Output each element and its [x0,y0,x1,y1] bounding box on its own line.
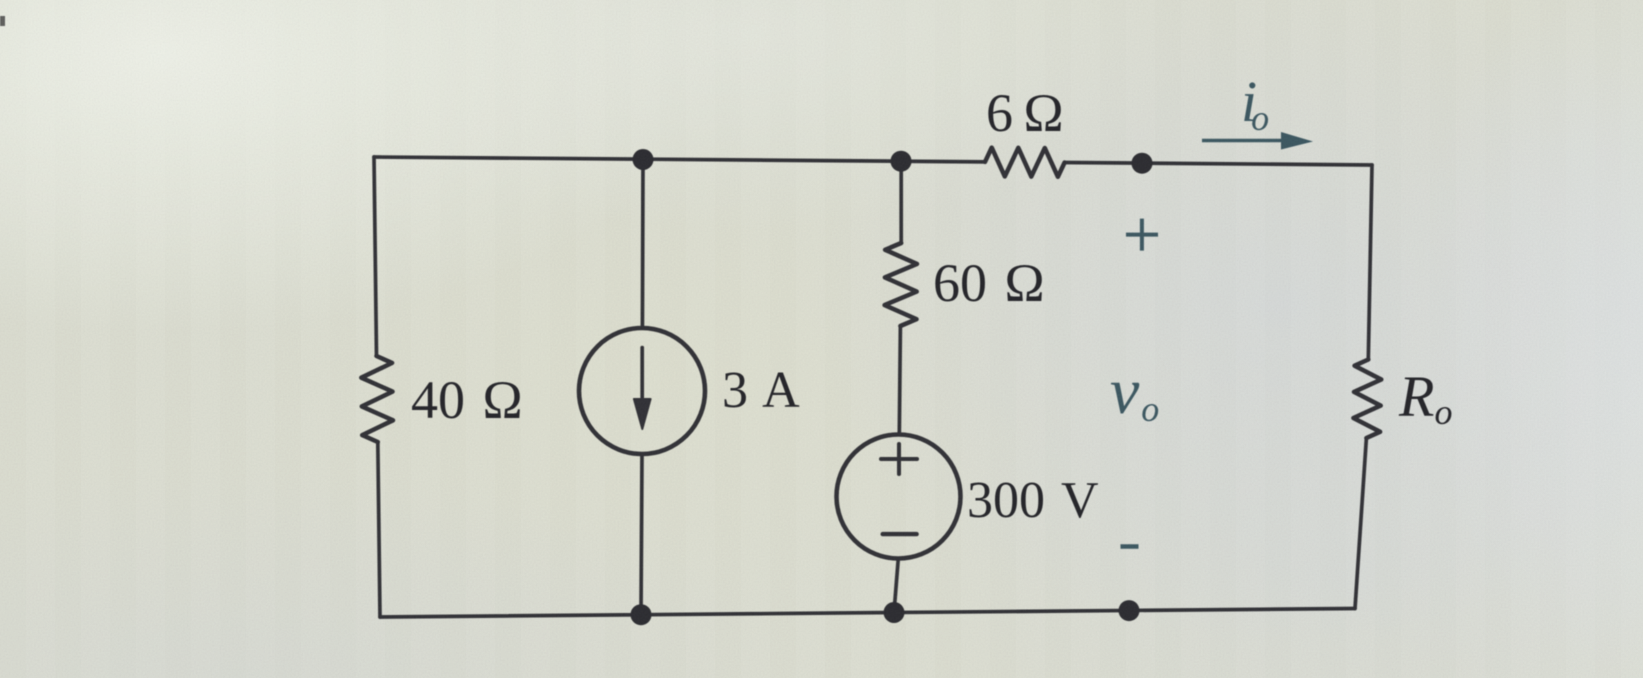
node bottom 2 [884,602,905,623]
wire right lower [1355,438,1366,609]
voltage source 300V circle [837,435,961,559]
current source arrow [640,348,644,400]
io arrow [1202,139,1285,143]
svg-text:60 Ω: 60 Ω [933,253,1045,313]
wire middle branch mid [899,326,900,435]
wire left upper [374,157,377,356]
svg-text:6 Ω: 6 Ω [986,83,1064,143]
node bottom 3 [1119,600,1140,621]
wire middle branch lower [894,559,898,613]
stray mark at left edge [0,16,5,26]
vo plus [1126,219,1158,251]
voltage source minus [883,532,917,536]
vo minus [1121,544,1139,548]
svg-text:io: io [1241,69,1269,138]
node top 1 [633,149,654,170]
node top 3 [1132,153,1153,174]
voltage source plus [881,444,917,474]
wire middle branch upper [899,161,903,243]
wire top right [1065,163,1372,166]
current source 3A circle [579,328,705,454]
resistor 60 Ohm [885,243,917,326]
resistor 40 Ohm [361,356,393,442]
wire bottom [380,609,1355,618]
svg-text:3 A: 3 A [722,362,800,419]
resistor Ro [1353,360,1381,439]
wire right upper [1368,165,1372,360]
svg-text:vo: vo [1110,355,1159,429]
wire current source branch upper [641,160,645,329]
wire top [374,157,985,162]
node top 2 [891,151,912,172]
node bottom 1 [631,604,652,625]
resistor 6 Ohm [985,148,1065,177]
svg-text:40 Ω: 40 Ω [411,370,523,430]
svg-text:300 V: 300 V [967,472,1099,529]
wire left lower [378,442,380,617]
wire current source branch lower [641,454,642,615]
svg-text:Ro: Ro [1398,364,1452,432]
